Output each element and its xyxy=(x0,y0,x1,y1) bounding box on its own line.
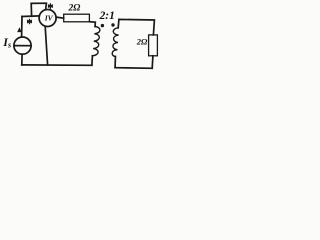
svg-text:Is: Is xyxy=(2,35,11,50)
wire R2 bottom stub xyxy=(151,56,154,68)
wire secondary bottom lead xyxy=(114,56,116,67)
svg-text:IV: IV xyxy=(44,14,54,23)
current source Is circle xyxy=(14,37,31,54)
wire top-left rail from Is corner to dependent source xyxy=(22,15,39,18)
current source Is arrow xyxy=(17,27,22,32)
resistor R1 box xyxy=(64,14,90,22)
transformer primary polarity dot xyxy=(101,24,104,27)
wire dependent source bottom riser xyxy=(45,27,47,65)
current source Is diameter bar xyxy=(14,45,31,47)
wire dependent source to resistor R1 xyxy=(56,17,64,18)
transformer secondary coil xyxy=(112,28,118,57)
wire bottom-right rail xyxy=(115,67,152,70)
wire primary bottom lead xyxy=(91,56,94,65)
svg-text:2Ω: 2Ω xyxy=(68,3,81,13)
wire bottom-left rail xyxy=(22,64,92,66)
wire loop over dependent source xyxy=(31,3,46,16)
svg-text:2Ω: 2Ω xyxy=(136,36,148,46)
wire Is top lead xyxy=(21,17,23,38)
polarity asterisk near junction xyxy=(27,19,32,25)
wire secondary top lead and top-right rail xyxy=(118,19,154,35)
transformer primary coil xyxy=(92,27,100,56)
dependent source U1 circle xyxy=(39,10,56,27)
wire R1 to transformer primary xyxy=(89,22,95,27)
transformer secondary polarity dot xyxy=(111,23,114,26)
resistor R2 box xyxy=(149,35,158,56)
polarity asterisk near dependent source top xyxy=(48,3,53,9)
wire Is bottom lead xyxy=(21,54,23,65)
svg-text:2:1: 2:1 xyxy=(99,10,115,22)
